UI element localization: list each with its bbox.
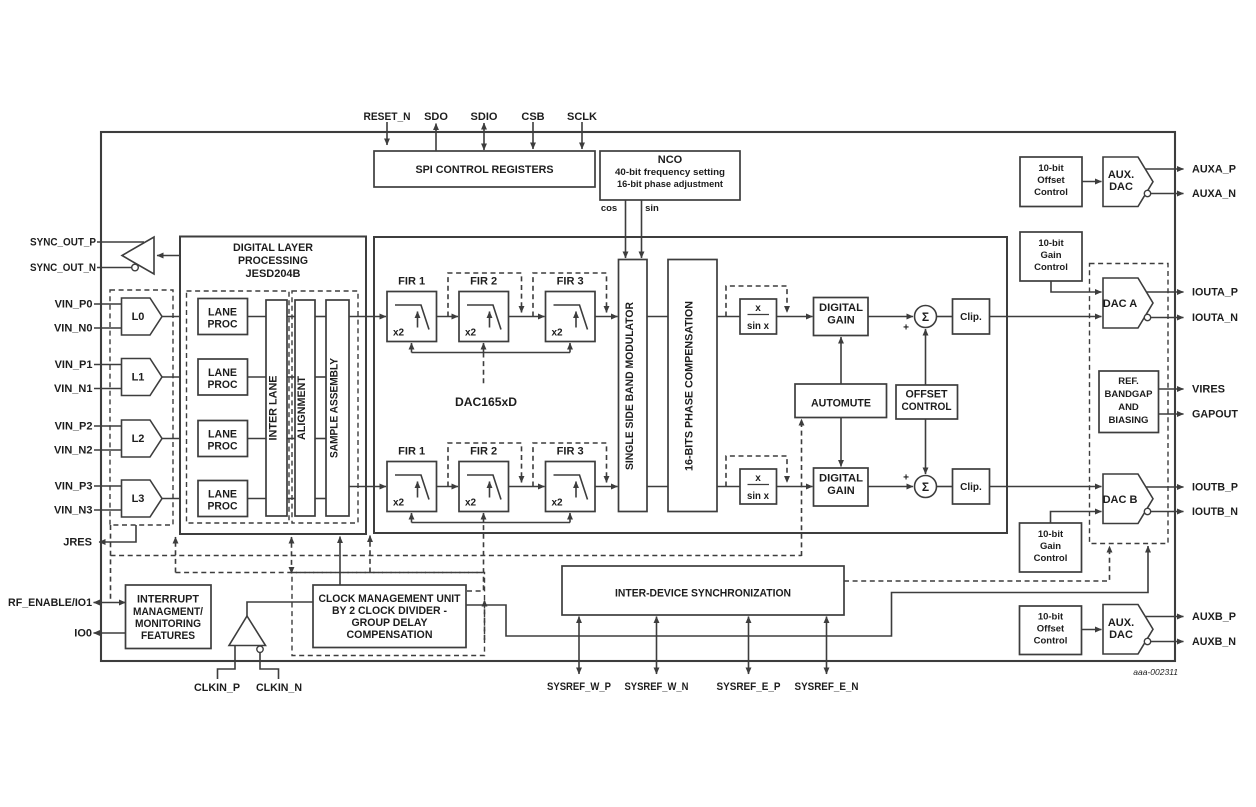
wire x/sinx to digital gain Q [777, 486, 813, 488]
svg-text:MONITORING: MONITORING [135, 618, 201, 630]
svg-text:VIN_P3: VIN_P3 [55, 481, 93, 493]
DAC B block [1103, 474, 1153, 524]
wire clock unit to JESD block [339, 537, 341, 586]
svg-text:SPI CONTROL REGISTERS: SPI CONTROL REGISTERS [416, 164, 554, 176]
svg-text:CONTROL: CONTROL [902, 401, 952, 413]
wire lane proc 0 to inter-lane [248, 316, 267, 318]
offset control block [896, 385, 958, 419]
pin SYSREF_E_N [826, 617, 828, 675]
wire offset control to aux dac B [1082, 629, 1102, 631]
svg-text:BANDGAP: BANDGAP [1105, 389, 1154, 400]
pin IOUTB_P [1146, 486, 1184, 488]
wire offset control to summer Q [925, 419, 927, 474]
svg-text:VIN_N1: VIN_N1 [54, 383, 93, 395]
wire alignment to sample assembly 0 [315, 316, 326, 318]
wire offset control to aux dac A [1082, 181, 1102, 183]
svg-text:PROC: PROC [208, 441, 238, 453]
NCO block [600, 151, 740, 200]
10-bit offset control block B [1020, 606, 1082, 655]
svg-text:sin x: sin x [747, 321, 769, 332]
svg-text:CLOCK MANAGEMENT UNIT: CLOCK MANAGEMENT UNIT [319, 593, 461, 605]
x over sin x block I [740, 299, 777, 334]
wire NCO sin to SSB modulator [641, 200, 643, 258]
lane proc block 2 [198, 421, 248, 457]
wire offset control to summer I [925, 329, 927, 385]
aux dac A block [1103, 157, 1153, 207]
wire inter-lane to alignment 2 [287, 438, 295, 440]
svg-text:JESD204B: JESD204B [246, 268, 301, 280]
10-bit gain control block B [1020, 523, 1082, 572]
wire digital gain to summer I [868, 316, 913, 318]
dashed stub from FIR feedback I to DAC165xD label [483, 353, 485, 386]
clock management unit block [313, 585, 466, 648]
svg-text:x2: x2 [465, 328, 477, 339]
svg-text:VIN_N2: VIN_N2 [54, 445, 93, 457]
svg-text:AUX.: AUX. [1108, 169, 1134, 181]
svg-text:AUXB_N: AUXB_N [1192, 636, 1236, 648]
svg-text:GAPOUT: GAPOUT [1192, 409, 1238, 421]
pin AUXA_P [1146, 168, 1184, 170]
wire phase comp to x/sinx Q [717, 486, 740, 488]
wire L2 to lane proc [162, 438, 197, 440]
svg-text:Control: Control [1034, 636, 1068, 647]
aux dac B block [1103, 605, 1153, 655]
svg-text:JRES: JRES [63, 537, 92, 549]
inter-device synchronization block [562, 566, 844, 615]
svg-text:Offset: Offset [1037, 175, 1065, 186]
input lane block L3 [122, 480, 163, 517]
svg-text:10-bit: 10-bit [1038, 529, 1064, 540]
svg-text:RF_ENABLE/IO1: RF_ENABLE/IO1 [8, 597, 92, 609]
svg-text:DAC: DAC [1109, 181, 1133, 193]
svg-text:PROC: PROC [208, 501, 238, 513]
10-bit gain control block A [1020, 232, 1082, 281]
svg-text:CLKIN_P: CLKIN_P [194, 682, 240, 694]
clip block I [953, 299, 990, 334]
svg-text:Σ: Σ [922, 480, 929, 494]
SPI control registers U-SPI [374, 151, 595, 187]
svg-text:ALIGNMENT: ALIGNMENT [296, 376, 308, 440]
svg-text:SDO: SDO [424, 111, 448, 123]
wire clip to DAC B [990, 486, 1102, 488]
svg-text:SYSREF_W_N: SYSREF_W_N [625, 681, 689, 693]
svg-text:40-bit frequency setting: 40-bit frequency setting [615, 167, 725, 178]
pin VIRES [1159, 388, 1184, 390]
svg-text:DAC165xD: DAC165xD [455, 395, 517, 409]
svg-text:DIGITAL: DIGITAL [819, 473, 863, 485]
svg-text:IOUTA_N: IOUTA_N [1192, 312, 1238, 324]
input lane block L0 [122, 298, 163, 335]
svg-text:AUTOMUTE: AUTOMUTE [811, 398, 871, 410]
svg-text:Offset: Offset [1037, 624, 1065, 635]
dashed control from clock unit to FIR feedback Q [467, 525, 484, 592]
dashed bypass box FIR3 Q [533, 443, 607, 487]
dashed bypass box FIR2 I [448, 273, 522, 317]
svg-text:FEATURES: FEATURES [141, 630, 195, 642]
svg-text:BIASING: BIASING [1109, 415, 1149, 426]
svg-text:FIR 2: FIR 2 [470, 446, 497, 458]
wire alignment to sample assembly 3 [315, 498, 326, 500]
dashed control bus A to automute [801, 419, 803, 556]
svg-text:sin x: sin x [747, 491, 769, 502]
svg-text:L0: L0 [132, 311, 145, 323]
summer (sigma) I [915, 306, 937, 328]
svg-text:10-bit: 10-bit [1038, 163, 1064, 174]
svg-text:SDIO: SDIO [471, 111, 498, 123]
pin CLKIN_P [218, 646, 236, 680]
svg-text:+: + [903, 323, 909, 334]
svg-text:CLKIN_N: CLKIN_N [256, 682, 302, 694]
svg-text:PROC: PROC [208, 379, 238, 391]
svg-text:LANE: LANE [208, 367, 237, 379]
svg-text:VIN_P0: VIN_P0 [55, 299, 93, 311]
wire JESD to sync buffer [157, 255, 180, 257]
svg-text:LANE: LANE [208, 307, 237, 319]
wire inter-lane to alignment 1 [287, 376, 295, 378]
wire L0 to lane proc [162, 316, 197, 318]
svg-text:Clip.: Clip. [960, 312, 982, 323]
svg-text:SAMPLE ASSEMBLY: SAMPLE ASSEMBLY [329, 357, 341, 458]
svg-text:L2: L2 [132, 433, 145, 445]
clip block Q [953, 469, 990, 504]
dashed group box lane-proc / inter-lane [187, 291, 290, 523]
svg-text:SYSREF_W_P: SYSREF_W_P [547, 681, 611, 693]
svg-text:SCLK: SCLK [567, 111, 597, 123]
svg-text:IOUTB_N: IOUTB_N [1192, 506, 1238, 518]
pin AUXB_N [1144, 638, 1150, 644]
svg-text:10-bit: 10-bit [1038, 238, 1064, 249]
svg-text:FIR 2: FIR 2 [470, 276, 497, 288]
svg-text:VIN_P2: VIN_P2 [55, 421, 93, 433]
svg-text:INTERRUPT: INTERRUPT [137, 594, 199, 606]
pin IOUTB_N [1144, 508, 1150, 514]
svg-text:L1: L1 [132, 372, 145, 384]
reference bandgap and biasing block [1099, 371, 1159, 433]
wire digital gain to summer Q [868, 486, 913, 488]
svg-text:Clip.: Clip. [960, 482, 982, 493]
wire automute to digital gain I [840, 337, 842, 384]
wire alignment to sample assembly 2 [315, 438, 326, 440]
10-bit offset control block A [1020, 157, 1082, 207]
wire automute to digital gain Q [840, 418, 842, 467]
svg-text:GAIN: GAIN [827, 485, 855, 497]
lane proc block 3 [198, 481, 248, 517]
svg-text:SYSREF_E_N: SYSREF_E_N [795, 681, 859, 693]
dashed bypass box x/sinx Q [726, 456, 787, 487]
pin AUXA_N [1144, 190, 1150, 196]
svg-text:16-bit phase adjustment: 16-bit phase adjustment [617, 179, 724, 190]
alignment block [295, 300, 315, 516]
svg-text:AUX.: AUX. [1108, 617, 1134, 629]
svg-text:Gain: Gain [1040, 541, 1061, 552]
dashed bypass box x/sinx I [726, 286, 787, 317]
wire lane proc 1 to inter-lane [248, 376, 267, 378]
svg-text:AUXB_P: AUXB_P [1192, 611, 1236, 623]
interpolation clock line I [412, 352, 571, 354]
svg-text:PROCESSING: PROCESSING [238, 255, 308, 267]
pin CLKIN_N [260, 653, 279, 680]
dashed control bus B arrow to JESD block [291, 537, 293, 574]
svg-text:DAC B: DAC B [1103, 494, 1138, 506]
dashed group box alignment / sample assembly [292, 291, 358, 523]
buffer U-SYNC (LVDS output) [122, 237, 154, 274]
svg-text:SINGLE SIDE BAND MODULATOR: SINGLE SIDE BAND MODULATOR [624, 302, 636, 470]
wire lane proc 2 to inter-lane [248, 438, 267, 440]
wire inter-lane to alignment 0 [287, 316, 295, 318]
pin IOUTA_N [1144, 314, 1150, 320]
svg-text:FIR 3: FIR 3 [557, 446, 584, 458]
svg-text:DAC: DAC [1109, 629, 1133, 641]
svg-text:MANAGMENT/: MANAGMENT/ [133, 606, 203, 618]
wire NCO cos to SSB modulator [625, 200, 627, 258]
wire lane proc 3 to inter-lane [248, 498, 267, 500]
interpolation clock line Q [412, 522, 571, 524]
16-bits phase compensation block [668, 260, 717, 512]
dashed control bus A (SPI controls) [111, 555, 802, 557]
inter lane block [266, 300, 287, 516]
summer (sigma) Q [915, 476, 937, 498]
svg-text:Σ: Σ [922, 310, 929, 324]
wire inter-lane to alignment 3 [287, 498, 295, 500]
svg-text:VIN_P1: VIN_P1 [55, 359, 93, 371]
svg-text:PROC: PROC [208, 319, 238, 331]
svg-text:GROUP DELAY: GROUP DELAY [352, 617, 429, 629]
svg-text:DIGITAL LAYER: DIGITAL LAYER [233, 242, 313, 254]
sample assembly block [326, 300, 349, 516]
dashed group box around clock management [292, 573, 485, 656]
wire gain control to DAC A [1051, 281, 1102, 292]
dashed control line to lane group [175, 537, 177, 573]
svg-text:IOUTA_P: IOUTA_P [1192, 287, 1238, 299]
svg-text:INTER-DEVICE SYNCHRONIZATION: INTER-DEVICE SYNCHRONIZATION [615, 588, 791, 600]
wire x/sinx to digital gain I [777, 316, 813, 318]
wire gain control to DAC B [1051, 512, 1102, 524]
pin SYSREF_W_P [578, 617, 580, 675]
wire alignment to sample assembly 1 [315, 376, 326, 378]
svg-text:SYNC_OUT_N: SYNC_OUT_N [30, 262, 96, 274]
svg-text:Gain: Gain [1040, 250, 1061, 261]
wire FIR1-FIR2 Q [437, 486, 459, 488]
svg-text:x2: x2 [465, 498, 477, 509]
wire L1 to lane proc [162, 376, 197, 378]
dashed bypass box FIR3 I [533, 273, 607, 317]
svg-text:Control: Control [1034, 262, 1068, 273]
lane proc block 0 [198, 299, 248, 335]
wire SSB to phase comp Q [647, 486, 668, 488]
svg-text:REF.: REF. [1118, 376, 1139, 387]
svg-text:COMPENSATION: COMPENSATION [347, 629, 433, 641]
digital gain block I [814, 298, 869, 336]
svg-text:x2: x2 [552, 328, 564, 339]
clock distribution line to DAC section [466, 546, 1148, 636]
svg-text:FIR 1: FIR 1 [398, 446, 425, 458]
wire FIR2-FIR3 Q [509, 486, 545, 488]
svg-text:x: x [755, 473, 761, 484]
svg-text:x2: x2 [393, 498, 405, 509]
wire SSB to phase comp I [647, 316, 668, 318]
svg-text:AUXA_P: AUXA_P [1192, 164, 1236, 176]
pin SYSREF_W_N [656, 617, 658, 675]
input lane block L2 [122, 420, 163, 457]
svg-text:NCO: NCO [658, 154, 683, 166]
svg-text:VIN_N0: VIN_N0 [54, 323, 93, 335]
dashed arrow inside clock group box [484, 600, 486, 640]
svg-text:GAIN: GAIN [827, 315, 855, 327]
automute block [795, 384, 887, 418]
svg-text:SYSREF_E_P: SYSREF_E_P [717, 681, 781, 693]
dashed group box around main DACs [1090, 264, 1169, 544]
digital gain block Q [814, 468, 869, 506]
svg-text:FIR 1: FIR 1 [398, 276, 425, 288]
wire FIR3 to SSB modulator Q [595, 486, 618, 488]
dashed group box around input lanes [110, 290, 173, 525]
svg-text:BY 2 CLOCK DIVIDER -: BY 2 CLOCK DIVIDER - [332, 605, 447, 617]
svg-text:L3: L3 [132, 493, 145, 505]
dashed sync control to DAC group [844, 546, 1110, 581]
svg-text:DIGITAL: DIGITAL [819, 302, 863, 314]
svg-text:aaa-002311: aaa-002311 [1133, 667, 1178, 677]
chip outer border [101, 132, 1175, 661]
svg-text:DAC A: DAC A [1103, 298, 1137, 310]
pin IOUTA_P [1146, 291, 1184, 293]
svg-text:VIRES: VIRES [1192, 384, 1225, 396]
svg-text:10-bit: 10-bit [1038, 612, 1064, 623]
svg-text:x2: x2 [393, 328, 405, 339]
svg-text:AUXA_N: AUXA_N [1192, 188, 1236, 200]
svg-text:cos: cos [601, 203, 617, 214]
wire FIR1-FIR2 I [437, 316, 459, 318]
svg-text:INTER LANE: INTER LANE [268, 376, 280, 441]
pin SYSREF_E_P [748, 617, 750, 675]
svg-text:x2: x2 [552, 498, 564, 509]
DSP datapath container box [374, 237, 1007, 533]
svg-text:16-BITS PHASE COMPENSATION: 16-BITS PHASE COMPENSATION [684, 301, 696, 471]
wire summer to clip Q [937, 486, 953, 488]
svg-text:FIR 3: FIR 3 [557, 276, 584, 288]
wire FIR3 to SSB modulator I [595, 316, 618, 318]
wire L3 to lane proc [162, 498, 197, 500]
DAC A block [1103, 278, 1153, 328]
svg-text:Control: Control [1034, 187, 1068, 198]
svg-text:x: x [755, 303, 761, 314]
svg-text:AND: AND [1118, 402, 1139, 413]
svg-text:IOUTB_P: IOUTB_P [1192, 482, 1238, 494]
wire sample assembly to FIR path Q [349, 486, 386, 488]
clock input buffer U-CLK [229, 616, 266, 646]
wire summer to clip I [937, 316, 953, 318]
single side band modulator block [619, 260, 648, 512]
dashed bypass box FIR2 Q [448, 443, 522, 487]
wire sample assembly to FIR path I [349, 316, 386, 318]
svg-text:IO0: IO0 [74, 628, 92, 640]
input lane block L1 [122, 359, 163, 396]
dashed control bus B (clock controls) [176, 572, 485, 574]
interrupt management block [126, 585, 212, 649]
svg-text:LANE: LANE [208, 489, 237, 501]
x over sin x block Q [740, 469, 777, 504]
svg-text:LANE: LANE [208, 429, 237, 441]
svg-text:VIN_N3: VIN_N3 [54, 505, 93, 517]
svg-text:SYNC_OUT_P: SYNC_OUT_P [30, 237, 96, 249]
svg-text:CSB: CSB [521, 111, 544, 123]
pin GAPOUT [1159, 413, 1184, 415]
lane proc block 1 [198, 359, 248, 395]
wire phase comp to x/sinx I [717, 316, 740, 318]
wire clock buffer to clock management unit [247, 602, 313, 616]
wire clip to DAC A [990, 316, 1102, 318]
digital layer processing JESD204B block [180, 237, 366, 535]
dashed control bus B arrow to DSP container [369, 536, 371, 573]
svg-text:+: + [903, 473, 909, 484]
svg-text:RESET_N: RESET_N [364, 111, 411, 123]
pin AUXB_P [1146, 616, 1184, 618]
svg-text:Control: Control [1034, 553, 1068, 564]
svg-text:sin: sin [645, 203, 659, 214]
wire FIR2-FIR3 I [509, 316, 545, 318]
dashed control line from lane group to interrupt block [110, 525, 112, 601]
svg-text:OFFSET: OFFSET [906, 389, 948, 401]
